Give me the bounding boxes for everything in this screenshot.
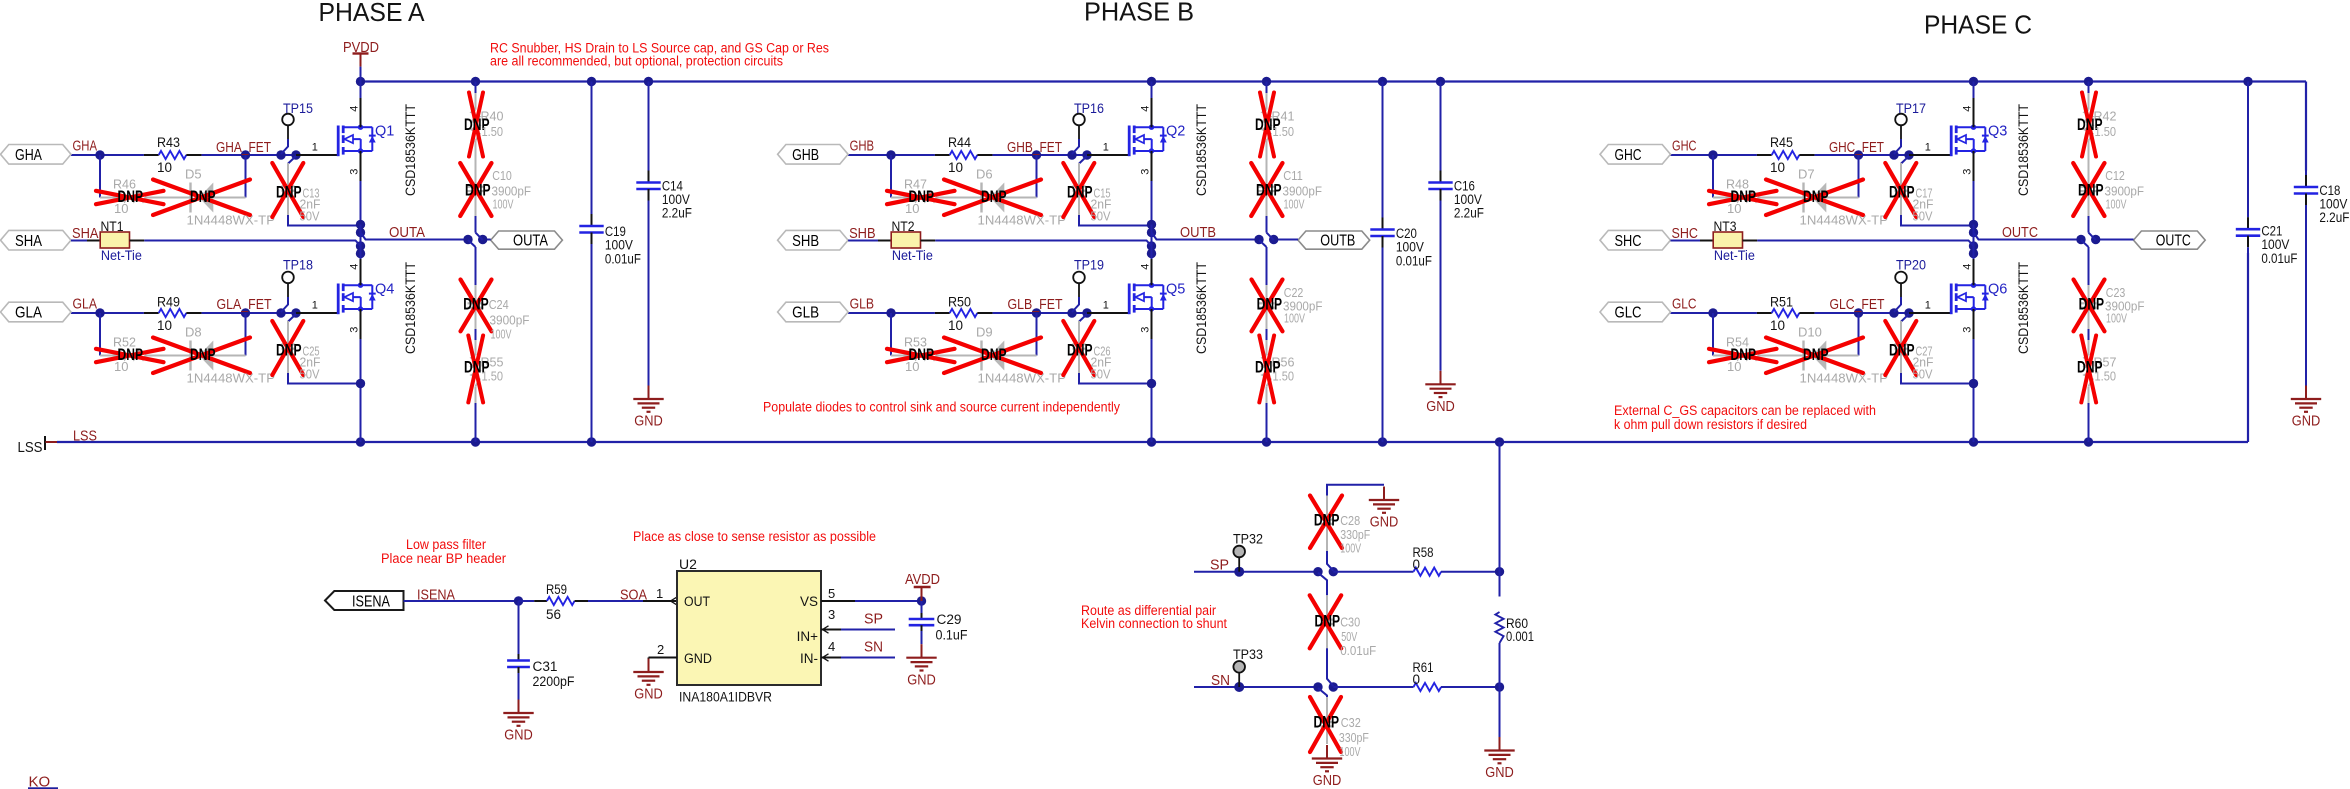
svg-text:4: 4 [1140, 264, 1152, 270]
svg-text:Q4: Q4 [375, 282, 394, 298]
svg-text:GHA: GHA [73, 139, 98, 155]
svg-text:SHA: SHA [15, 233, 43, 250]
svg-text:100V: 100V [1284, 197, 1305, 212]
svg-text:GND: GND [1313, 773, 1342, 789]
svg-text:SHC: SHC [1615, 233, 1642, 250]
svg-text:C32: C32 [1341, 715, 1361, 730]
svg-text:10: 10 [948, 318, 963, 333]
svg-text:GND: GND [1485, 765, 1514, 781]
svg-text:OUTB: OUTB [1180, 225, 1216, 241]
svg-text:1.50: 1.50 [482, 369, 504, 384]
svg-text:GHB_FET: GHB_FET [1007, 140, 1062, 156]
svg-text:1: 1 [1925, 142, 1931, 154]
svg-text:3: 3 [1140, 327, 1152, 333]
svg-text:DNP: DNP [1067, 184, 1093, 202]
svg-text:KO: KO [29, 774, 51, 789]
svg-text:GHC: GHC [1615, 147, 1642, 164]
svg-text:D10: D10 [1798, 325, 1822, 340]
svg-text:GLB: GLB [792, 305, 819, 322]
svg-text:100V: 100V [2106, 197, 2127, 212]
svg-text:NT2: NT2 [892, 219, 915, 234]
svg-text:100V: 100V [1340, 744, 1361, 759]
svg-text:DNP: DNP [1803, 346, 1829, 364]
svg-text:100V: 100V [2261, 237, 2289, 252]
svg-text:TP16: TP16 [1074, 100, 1104, 116]
svg-text:GND: GND [684, 651, 712, 666]
svg-text:50V: 50V [1913, 367, 1933, 382]
svg-text:4: 4 [828, 639, 835, 654]
svg-text:GHC: GHC [1672, 139, 1697, 155]
svg-text:100V: 100V [1340, 540, 1361, 555]
svg-text:GND: GND [1426, 399, 1455, 415]
svg-text:DNP: DNP [2078, 181, 2104, 199]
svg-text:1N4448WX-TP: 1N4448WX-TP [978, 370, 1067, 385]
svg-text:1N4448WX-TP: 1N4448WX-TP [187, 370, 276, 385]
svg-text:C28: C28 [1340, 513, 1360, 528]
svg-text:GND: GND [634, 414, 663, 430]
svg-text:DNP: DNP [1315, 613, 1341, 631]
svg-text:VS: VS [800, 594, 818, 609]
svg-text:C10: C10 [492, 168, 512, 183]
svg-text:R51: R51 [1770, 294, 1793, 309]
svg-text:C30: C30 [1340, 615, 1360, 630]
svg-text:0: 0 [1413, 557, 1421, 572]
svg-text:C24: C24 [489, 297, 509, 312]
svg-text:3: 3 [349, 169, 361, 175]
svg-text:DNP: DNP [118, 188, 144, 206]
svg-text:D5: D5 [185, 167, 202, 182]
svg-text:NT3: NT3 [1714, 219, 1737, 234]
svg-text:100V: 100V [605, 238, 633, 253]
svg-text:Net-Tie: Net-Tie [101, 248, 142, 263]
svg-text:50V: 50V [1913, 209, 1933, 224]
svg-text:50V: 50V [1091, 367, 1111, 382]
svg-text:INA180A1IDBVR: INA180A1IDBVR [679, 689, 772, 705]
svg-text:4: 4 [1140, 106, 1152, 112]
svg-text:D9: D9 [976, 325, 993, 340]
svg-text:0.01uF: 0.01uF [605, 252, 641, 267]
svg-text:1.50: 1.50 [2095, 369, 2117, 384]
svg-text:NT1: NT1 [101, 219, 124, 234]
svg-text:DNP: DNP [1889, 184, 1915, 202]
svg-text:R59: R59 [546, 582, 567, 597]
svg-text:Q3: Q3 [1988, 124, 2007, 140]
svg-text:OUTA: OUTA [389, 225, 425, 241]
svg-text:1N4448WX-TP: 1N4448WX-TP [187, 212, 276, 227]
svg-text:OUTC: OUTC [2156, 232, 2191, 249]
svg-text:TP20: TP20 [1896, 257, 1926, 273]
svg-text:ISENA: ISENA [352, 593, 391, 610]
svg-text:SHB: SHB [792, 233, 819, 250]
svg-text:GND: GND [907, 672, 936, 688]
svg-text:10: 10 [1770, 160, 1785, 175]
svg-text:4: 4 [349, 264, 361, 270]
svg-text:DNP: DNP [276, 184, 302, 202]
svg-text:3: 3 [1962, 327, 1974, 333]
svg-text:3: 3 [1962, 169, 1974, 175]
svg-text:TP33: TP33 [1233, 646, 1263, 662]
svg-text:DNP: DNP [909, 346, 935, 364]
svg-text:GLA: GLA [15, 305, 43, 322]
svg-text:0.01uF: 0.01uF [1340, 643, 1376, 658]
svg-text:DNP: DNP [1067, 342, 1093, 360]
svg-text:GHC_FET: GHC_FET [1829, 140, 1884, 156]
svg-text:50V: 50V [300, 367, 320, 382]
svg-text:DNP: DNP [463, 296, 489, 314]
svg-text:Net-Tie: Net-Tie [892, 248, 933, 263]
svg-text:External C_GS capacitors can b: External C_GS capacitors can be replaced… [1614, 403, 1876, 418]
svg-text:100V: 100V [2106, 310, 2127, 325]
svg-text:LSS: LSS [18, 439, 43, 456]
svg-text:GND: GND [504, 728, 533, 744]
svg-text:DNP: DNP [1257, 296, 1283, 314]
svg-text:2.2uF: 2.2uF [2319, 210, 2349, 225]
svg-text:SOA: SOA [620, 588, 647, 604]
svg-text:GLB_FET: GLB_FET [1008, 297, 1063, 313]
svg-text:1N4448WX-TP: 1N4448WX-TP [1800, 370, 1889, 385]
svg-text:5: 5 [828, 586, 835, 601]
svg-text:GLC: GLC [1672, 297, 1697, 313]
svg-text:GND: GND [2292, 414, 2321, 430]
svg-text:R50: R50 [948, 294, 971, 309]
svg-text:100V: 100V [1396, 240, 1424, 255]
svg-text:GLB: GLB [850, 297, 875, 313]
svg-text:DNP: DNP [190, 188, 216, 206]
svg-text:1N4448WX-TP: 1N4448WX-TP [978, 212, 1067, 227]
svg-text:AVDD: AVDD [905, 572, 940, 588]
svg-text:SP: SP [864, 612, 883, 628]
svg-text:Q1: Q1 [375, 124, 394, 140]
svg-text:Q6: Q6 [1988, 282, 2007, 298]
svg-text:k ohm pull down resistors if d: k ohm pull down resistors if desired [1614, 417, 1807, 432]
svg-text:4: 4 [349, 106, 361, 112]
svg-text:Place near BP header: Place near BP header [381, 551, 506, 566]
svg-text:100V: 100V [493, 197, 514, 212]
svg-text:0.1uF: 0.1uF [936, 628, 968, 643]
svg-text:DNP: DNP [465, 181, 491, 199]
svg-text:1: 1 [312, 300, 318, 312]
svg-text:LSS: LSS [73, 429, 97, 445]
svg-text:50V: 50V [300, 209, 320, 224]
svg-text:D6: D6 [976, 167, 993, 182]
svg-text:TP17: TP17 [1896, 100, 1926, 116]
svg-text:R44: R44 [948, 135, 971, 150]
svg-text:TP15: TP15 [283, 100, 313, 116]
svg-text:DNP: DNP [1889, 342, 1915, 360]
svg-text:R45: R45 [1770, 135, 1793, 150]
svg-text:GLC_FET: GLC_FET [1830, 297, 1885, 313]
svg-text:1.50: 1.50 [482, 124, 504, 139]
svg-text:1: 1 [656, 586, 663, 601]
svg-text:330pF: 330pF [1339, 730, 1369, 745]
svg-text:DNP: DNP [190, 346, 216, 364]
svg-text:OUTB: OUTB [1320, 232, 1355, 249]
svg-text:3: 3 [828, 607, 835, 622]
svg-text:3: 3 [1140, 169, 1152, 175]
svg-text:10: 10 [157, 318, 172, 333]
svg-text:PHASE B: PHASE B [1084, 0, 1194, 26]
svg-text:56: 56 [546, 607, 561, 622]
svg-text:CSD18536KTTT: CSD18536KTTT [1193, 262, 1209, 354]
svg-text:1N4448WX-TP: 1N4448WX-TP [1800, 212, 1889, 227]
svg-text:3900pF: 3900pF [490, 313, 530, 328]
svg-text:CSD18536KTTT: CSD18536KTTT [2015, 104, 2031, 196]
svg-text:D7: D7 [1798, 167, 1815, 182]
svg-text:PHASE A: PHASE A [319, 0, 426, 27]
svg-text:C29: C29 [937, 612, 962, 627]
svg-text:4: 4 [1962, 106, 1974, 112]
svg-text:GHA_FET: GHA_FET [216, 140, 271, 156]
svg-text:10: 10 [948, 160, 963, 175]
svg-text:CSD18536KTTT: CSD18536KTTT [1193, 104, 1209, 196]
svg-text:1: 1 [1925, 300, 1931, 312]
svg-text:DNP: DNP [1731, 346, 1757, 364]
svg-text:GLA: GLA [73, 297, 98, 313]
svg-text:SP: SP [1210, 558, 1229, 574]
svg-text:IN+: IN+ [797, 629, 819, 644]
svg-text:TP32: TP32 [1233, 531, 1263, 547]
svg-text:are all recommended, but optio: are all recommended, but optional, prote… [490, 54, 783, 69]
svg-text:0: 0 [1413, 672, 1421, 687]
svg-text:GHB: GHB [850, 139, 875, 155]
svg-text:1.50: 1.50 [1273, 369, 1295, 384]
svg-text:1: 1 [1103, 300, 1109, 312]
svg-text:0.001: 0.001 [1506, 629, 1534, 644]
svg-text:R49: R49 [157, 294, 180, 309]
svg-text:Q2: Q2 [1166, 124, 1185, 140]
svg-text:Net-Tie: Net-Tie [1714, 248, 1755, 263]
svg-text:GHB: GHB [792, 147, 819, 164]
svg-text:Place as close to sense resist: Place as close to sense resistor as poss… [633, 529, 876, 544]
svg-text:GLA_FET: GLA_FET [217, 297, 272, 313]
svg-text:Populate diodes to control sin: Populate diodes to control sink and sour… [763, 400, 1120, 415]
svg-text:OUTA: OUTA [513, 232, 549, 249]
svg-text:SN: SN [1211, 673, 1230, 689]
svg-text:C12: C12 [2105, 168, 2125, 183]
svg-text:DNP: DNP [276, 342, 302, 360]
svg-text:CSD18536KTTT: CSD18536KTTT [2015, 262, 2031, 354]
svg-text:Kelvin connection to shunt: Kelvin connection to shunt [1081, 616, 1227, 631]
svg-text:GND: GND [1370, 515, 1399, 531]
svg-text:DNP: DNP [2079, 296, 2105, 314]
svg-text:GND: GND [634, 687, 663, 703]
svg-text:DNP: DNP [1314, 713, 1340, 731]
svg-text:DNP: DNP [981, 346, 1007, 364]
svg-text:10: 10 [157, 160, 172, 175]
svg-text:CSD18536KTTT: CSD18536KTTT [402, 262, 418, 354]
svg-text:OUT: OUT [684, 594, 710, 609]
svg-text:C11: C11 [1283, 168, 1303, 183]
svg-text:1: 1 [1103, 142, 1109, 154]
svg-text:IN-: IN- [800, 651, 818, 666]
svg-text:SN: SN [864, 640, 883, 656]
svg-text:DNP: DNP [981, 188, 1007, 206]
svg-text:1.50: 1.50 [2095, 124, 2117, 139]
svg-text:2200pF: 2200pF [533, 674, 575, 689]
svg-text:DNP: DNP [118, 346, 144, 364]
svg-text:2: 2 [657, 642, 664, 657]
svg-text:DNP: DNP [1256, 181, 1282, 199]
svg-text:100V: 100V [1284, 310, 1305, 325]
svg-text:PHASE C: PHASE C [1924, 10, 2032, 40]
svg-text:DNP: DNP [1803, 188, 1829, 206]
svg-text:1: 1 [312, 142, 318, 154]
svg-text:OUTC: OUTC [2002, 225, 2038, 241]
svg-text:0.01uF: 0.01uF [1396, 254, 1432, 269]
svg-text:50V: 50V [1091, 209, 1111, 224]
svg-text:GHA: GHA [15, 147, 43, 164]
svg-text:U2: U2 [679, 556, 697, 572]
svg-text:100V: 100V [491, 326, 512, 341]
svg-text:CSD18536KTTT: CSD18536KTTT [402, 104, 418, 196]
svg-text:2.2uF: 2.2uF [1454, 206, 1484, 221]
svg-text:3: 3 [349, 327, 361, 333]
svg-text:DNP: DNP [1731, 188, 1757, 206]
svg-text:D8: D8 [185, 325, 202, 340]
svg-text:2.2uF: 2.2uF [662, 206, 692, 221]
svg-text:4: 4 [1962, 264, 1974, 270]
svg-text:R43: R43 [157, 135, 180, 150]
svg-text:50V: 50V [1341, 629, 1357, 644]
svg-text:Low pass filter: Low pass filter [406, 537, 486, 552]
svg-text:DNP: DNP [909, 188, 935, 206]
svg-text:TP19: TP19 [1074, 257, 1104, 273]
svg-text:C31: C31 [533, 659, 558, 674]
svg-text:TP18: TP18 [283, 257, 313, 273]
svg-text:Q5: Q5 [1166, 282, 1185, 298]
svg-text:0.01uF: 0.01uF [2261, 251, 2297, 266]
svg-text:1.50: 1.50 [1273, 124, 1295, 139]
svg-text:10: 10 [1770, 318, 1785, 333]
svg-text:GLC: GLC [1615, 305, 1642, 322]
svg-text:DNP: DNP [1314, 512, 1340, 530]
